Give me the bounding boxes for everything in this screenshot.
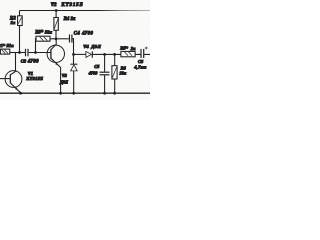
svg-text:КТ315Б: КТ315Б [25, 76, 43, 81]
wire V4 to output line [92, 53, 150, 55]
resistor R4 [54, 18, 58, 31]
capacitor C6 right plate [143, 49, 145, 58]
svg-text:10к: 10к [119, 70, 126, 75]
wire C5 bottom to ground [104, 75, 106, 92]
svg-text:Д9Л: Д9Л [90, 44, 101, 49]
transistor V2 circle [47, 45, 64, 62]
polarity plus of C6 [145, 47, 148, 50]
diode V3 cathode bar [70, 63, 77, 65]
node E junction dot (C5) [103, 53, 106, 56]
wire C4 to detector corner [72, 39, 73, 55]
transistor V1 circle [5, 71, 22, 88]
svg-text:R1*: R1* [0, 43, 6, 48]
svg-text:51к: 51к [7, 43, 15, 48]
wire R3 riser [35, 39, 38, 53]
capacitor C5 top plate [100, 71, 110, 73]
capacitor C2 right plate [27, 49, 29, 57]
node C junction dot (collector) [55, 38, 58, 41]
capacitor C4 left plate [69, 35, 71, 43]
resistor R5 [121, 51, 135, 56]
node D junction dot (detector) [72, 53, 75, 56]
transistor V1 emitter with arrow [11, 83, 21, 93]
wire detector node down to V3 [73, 54, 75, 64]
junction dot V2 emitter on ground [59, 92, 62, 95]
node F junction dot (R6) [113, 53, 116, 56]
resistor R6 [112, 66, 117, 79]
transistor V2 base bar [50, 49, 52, 59]
diode V4 triangle [86, 51, 92, 57]
svg-text:R4 1к: R4 1к [64, 17, 76, 22]
wire C2 to V2 base [29, 52, 51, 54]
resistor R5 hatches [124, 52, 132, 56]
svg-text:2к: 2к [130, 46, 136, 51]
svg-text:V1: V1 [28, 71, 33, 76]
wire V1 collector riser [11, 53, 16, 75]
svg-text:R3*: R3* [35, 31, 43, 36]
junction dot C5 on ground [103, 92, 106, 95]
transistor V2 collector [51, 39, 56, 50]
wire detector node to V4 [74, 53, 86, 55]
node A junction dot (R2) [18, 51, 21, 54]
svg-text:V4: V4 [83, 44, 89, 49]
transistor V2 emitter with arrow [51, 58, 61, 92]
capacitor C2 left plate [25, 49, 27, 57]
wire collector node up to R4 [55, 30, 57, 39]
svg-text:4700: 4700 [88, 71, 99, 76]
capacitor C4 right plate [71, 35, 73, 43]
svg-text:4,7мк: 4,7мк [133, 64, 147, 69]
capacitor C6 left plate [140, 49, 142, 58]
resistor R4 power hatch [54, 19, 58, 29]
svg-text:R5*: R5* [120, 46, 128, 51]
svg-text:V2: V2 [51, 3, 57, 8]
resistor R3 hatches [40, 37, 48, 41]
resistor R2 power hatch [18, 17, 22, 24]
diode V3 triangle [71, 65, 78, 71]
wire R2 top lead / corner to rail [19, 11, 21, 16]
resistor R1 hatches [2, 50, 9, 54]
wire R1 to node A [10, 52, 25, 54]
scan noise background [0, 0, 150, 100]
junction dot R6 on ground [113, 92, 116, 95]
diode V4 cathode bar [91, 51, 93, 57]
wire V3 to ground [73, 71, 75, 93]
svg-text:С4 4700: С4 4700 [74, 31, 94, 36]
svg-text:КТ315Б: КТ315Б [60, 3, 83, 8]
wire top supply rail [20, 10, 151, 12]
svg-text:1к: 1к [10, 20, 15, 25]
wire R6 top lead [114, 54, 116, 65]
wire C5 top lead [104, 54, 106, 71]
transistor V1 base bar [9, 74, 11, 83]
junction dot V1 emitter on ground [19, 92, 22, 95]
svg-text:4700: 4700 [27, 60, 39, 65]
svg-text:С2: С2 [21, 59, 27, 64]
node B junction dot (R3 tap) [34, 51, 37, 54]
junction dot R4 on rail [55, 9, 58, 12]
resistor R3 [36, 36, 50, 41]
wire collector node to C4 [56, 38, 69, 40]
wire V1 base lead [0, 78, 10, 80]
svg-text:V3: V3 [62, 73, 68, 78]
junction dot V3 on ground [72, 92, 75, 95]
resistor R6 power hatch [112, 67, 116, 77]
wire bottom ground rail [0, 92, 150, 94]
wire R2 bottom to node A [19, 26, 21, 53]
resistor R2 [18, 16, 23, 26]
svg-text:Д9Л: Д9Л [59, 80, 68, 85]
svg-text:С5: С5 [94, 64, 100, 69]
resistor R1 [0, 49, 9, 54]
wire R3 right to collector node [50, 38, 56, 40]
wire R6 bottom to ground [114, 79, 116, 93]
svg-text:51к: 51к [45, 30, 53, 35]
wire R4 top to rail [55, 11, 57, 18]
capacitor C5 bottom plate [100, 74, 110, 76]
